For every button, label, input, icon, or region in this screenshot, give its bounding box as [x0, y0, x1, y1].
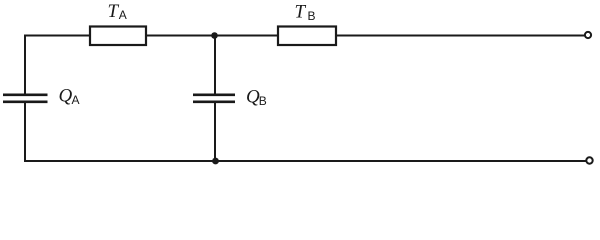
svg-text:B: B [259, 94, 267, 108]
svg-text:T: T [108, 1, 120, 22]
svg-text:A: A [72, 93, 80, 107]
svg-text:Q: Q [59, 86, 73, 107]
svg-text:T: T [295, 2, 307, 23]
svg-text:A: A [119, 8, 127, 22]
svg-text:B: B [308, 9, 316, 23]
